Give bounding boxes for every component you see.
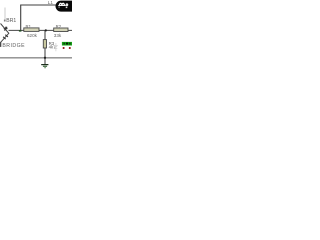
svg-text:BRIDGE: BRIDGE [2, 43, 25, 49]
svg-text:33k: 33k [54, 33, 62, 38]
svg-text:R1: R1 [26, 24, 32, 29]
svg-text:620k: 620k [27, 33, 38, 38]
svg-text:R2: R2 [56, 24, 62, 29]
svg-text:BR1: BR1 [6, 18, 16, 24]
svg-text:L1: L1 [48, 0, 54, 5]
